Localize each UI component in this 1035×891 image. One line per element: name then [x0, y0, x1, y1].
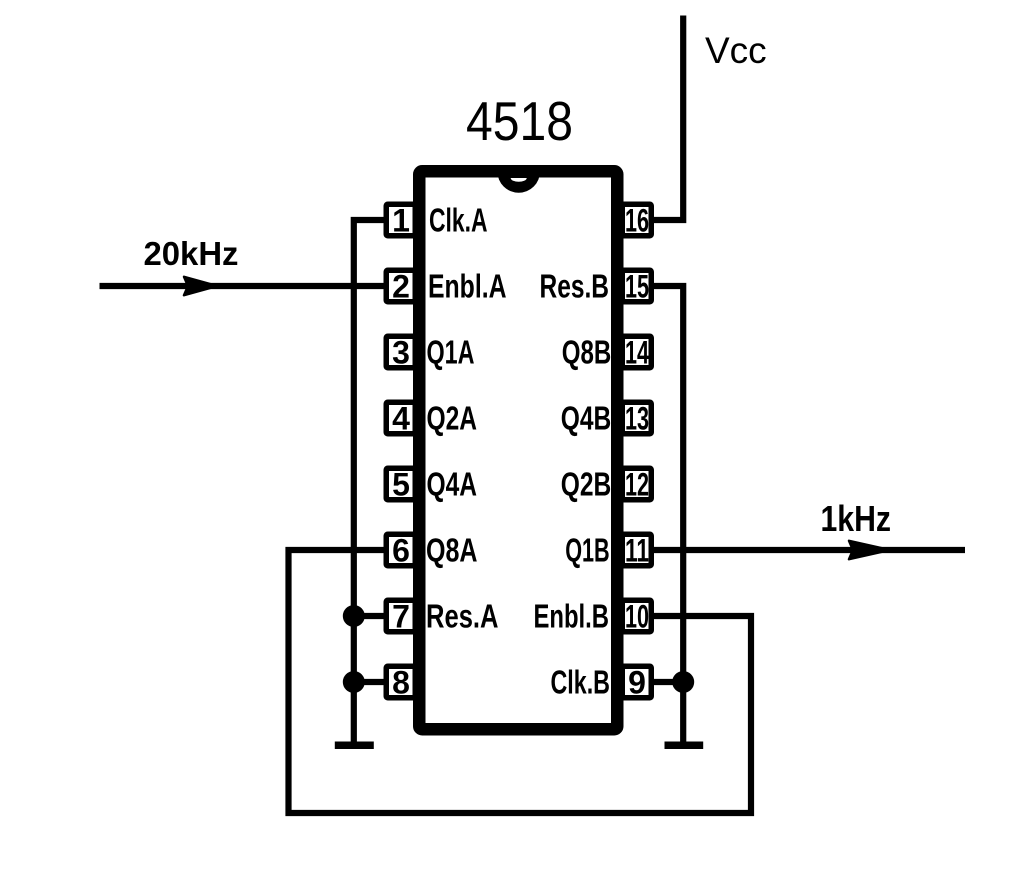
wire Vcc to pin 16	[654, 16, 683, 221]
wire pin 8 stub	[354, 679, 384, 685]
IC notch inner	[511, 178, 527, 182]
svg-text:13: 13	[625, 401, 649, 437]
svg-text:15: 15	[625, 269, 649, 305]
svg-text:Q4B: Q4B	[561, 401, 612, 438]
pin 2 box	[386, 270, 415, 302]
pin 4 box	[386, 402, 415, 434]
svg-text:Clk.B: Clk.B	[551, 665, 611, 702]
pin 9 box	[622, 666, 651, 698]
svg-text:7: 7	[392, 599, 410, 635]
IC U1 body border	[419, 171, 617, 729]
pin 5 box	[386, 468, 415, 500]
IC notch outer arc	[497, 172, 540, 193]
ground left	[335, 742, 374, 750]
svg-text:Enbl.B: Enbl.B	[534, 599, 610, 636]
pin 8 box	[386, 666, 415, 698]
svg-text:Q4A: Q4A	[427, 467, 478, 504]
svg-text:Q8B: Q8B	[562, 335, 612, 372]
svg-text:4518: 4518	[466, 90, 573, 152]
pin 10 box	[622, 600, 651, 632]
svg-text:Clk.A: Clk.A	[429, 203, 488, 240]
wire pin 6 Q8A loop to pin 10 Enbl.B	[289, 550, 752, 813]
junction dot pin 9	[672, 671, 694, 693]
svg-text:11: 11	[625, 533, 649, 569]
svg-text:3: 3	[392, 335, 410, 371]
wire pin 9 stub	[654, 679, 683, 685]
pin 13 box	[622, 402, 651, 434]
pin 16 box	[622, 204, 651, 236]
svg-text:Res.B: Res.B	[540, 269, 610, 306]
wire pin 15 to ground rail	[654, 286, 683, 742]
pin 3 box	[386, 336, 415, 368]
junction dot pin 7	[343, 605, 365, 627]
wire pin 11 1kHz output	[654, 547, 965, 553]
pin 6 box	[386, 534, 415, 566]
svg-text:Q1B: Q1B	[565, 533, 610, 570]
pin 14 box	[622, 336, 651, 368]
pin 7 box	[386, 600, 415, 632]
IC U1 4518 body fill	[413, 165, 624, 736]
svg-text:Q2A: Q2A	[427, 401, 478, 438]
svg-text:20kHz: 20kHz	[144, 236, 239, 273]
pin 1 box	[386, 204, 415, 236]
pin 11 box	[622, 534, 651, 566]
svg-text:6: 6	[392, 533, 410, 569]
svg-text:16: 16	[625, 203, 649, 239]
ground right	[665, 742, 704, 750]
arrowhead 1kHz	[849, 541, 890, 559]
wire 20kHz input to pin 2	[100, 283, 387, 289]
svg-text:10: 10	[625, 599, 649, 635]
svg-text:9: 9	[628, 665, 646, 701]
svg-text:1kHz: 1kHz	[821, 498, 892, 539]
svg-text:2: 2	[392, 269, 410, 305]
svg-text:Q2B: Q2B	[561, 467, 612, 504]
svg-text:12: 12	[625, 467, 649, 503]
junction dot pin 8	[343, 671, 365, 693]
svg-text:4: 4	[392, 401, 410, 437]
svg-text:5: 5	[392, 467, 410, 503]
svg-text:Enbl.A: Enbl.A	[428, 269, 507, 306]
svg-text:8: 8	[392, 665, 410, 701]
wire pin 7 stub	[354, 613, 384, 619]
svg-text:1: 1	[392, 203, 410, 239]
pin 15 box	[622, 270, 651, 302]
svg-text:Vcc: Vcc	[705, 30, 767, 71]
wire pin 1 to ground rail	[354, 220, 384, 742]
svg-text:14: 14	[625, 335, 649, 371]
pin 12 box	[622, 468, 651, 500]
svg-text:Res.A: Res.A	[426, 599, 499, 636]
svg-text:Q8A: Q8A	[426, 533, 478, 570]
svg-text:Q1A: Q1A	[427, 335, 475, 372]
arrowhead 20kHz	[184, 277, 217, 295]
